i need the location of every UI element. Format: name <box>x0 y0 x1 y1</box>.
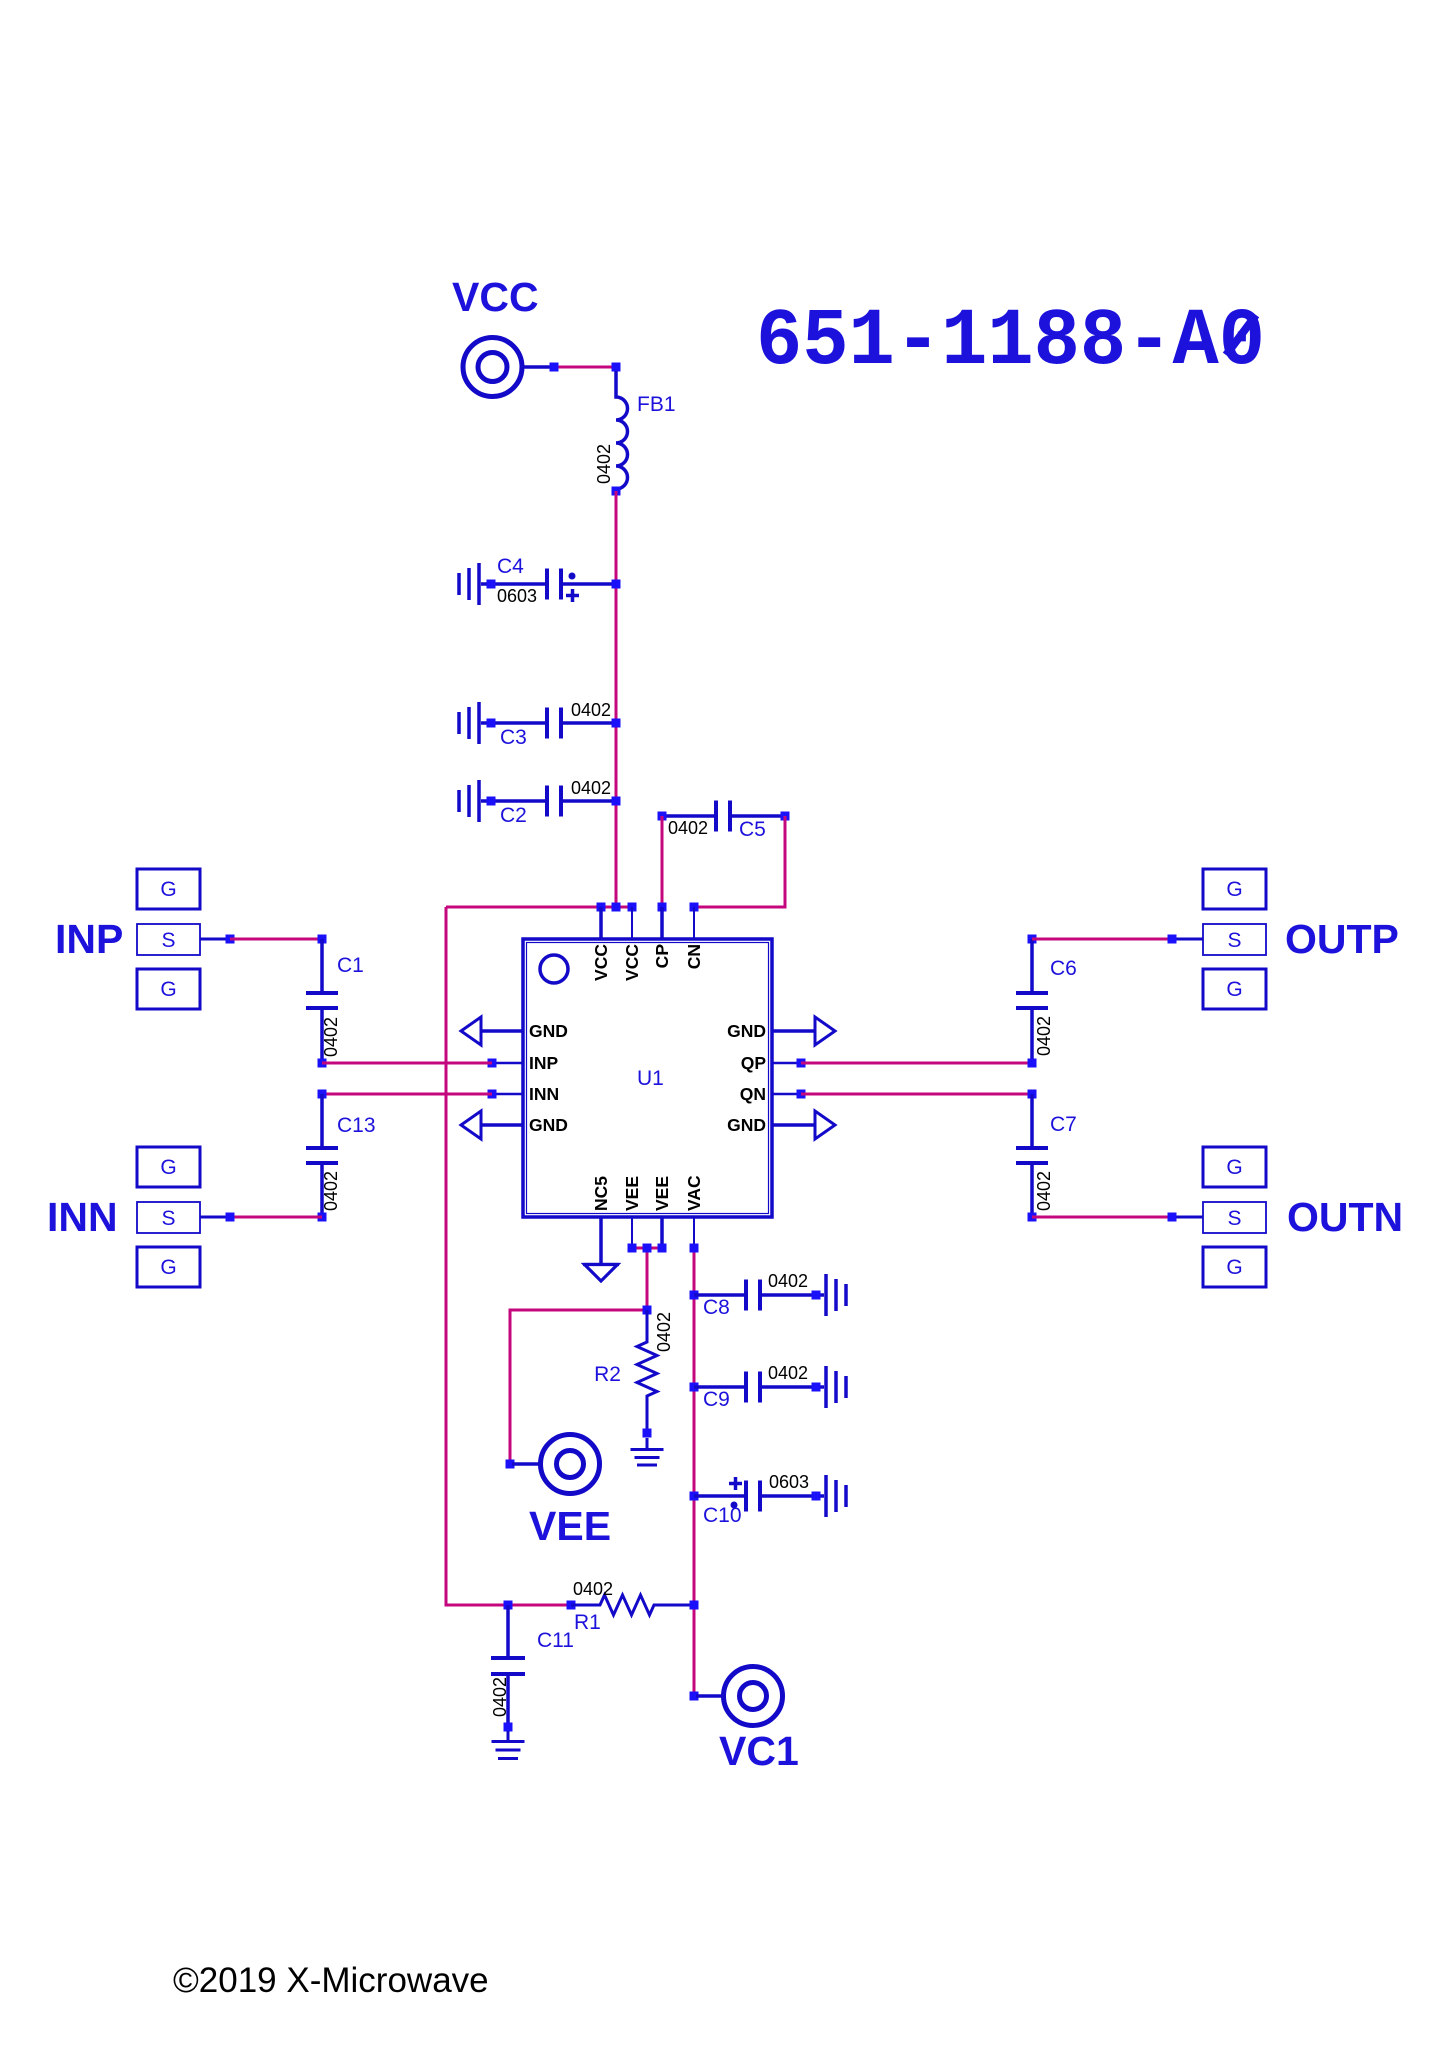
svg-text:C11: C11 <box>537 1629 574 1652</box>
svg-text:G: G <box>1226 978 1242 1001</box>
svg-text:C10: C10 <box>703 1504 742 1527</box>
svg-text:0402: 0402 <box>1034 1171 1054 1211</box>
svg-text:GND: GND <box>529 1021 568 1041</box>
capacitor C4 <box>459 555 621 606</box>
wire INP S to C1 <box>230 938 322 941</box>
capacitor C1 <box>306 935 364 1068</box>
svg-text:0402: 0402 <box>573 1579 613 1599</box>
svg-text:CP: CP <box>652 944 672 969</box>
capacitor C5 <box>658 801 790 842</box>
svg-text:VC1: VC1 <box>719 1728 799 1774</box>
wire C7 to OUTN S <box>1032 1216 1172 1219</box>
wire VEE pins junction <box>628 1244 667 1311</box>
svg-text:S: S <box>1227 929 1241 952</box>
svg-text:C7: C7 <box>1050 1113 1077 1136</box>
pin GND (left bottom) <box>461 1111 568 1139</box>
svg-text:VEE: VEE <box>529 1503 611 1549</box>
pin VEE (bottom 1) <box>622 1176 642 1248</box>
ground at C8 <box>826 1274 846 1316</box>
svg-text:GND: GND <box>529 1115 568 1135</box>
resistor R2 <box>594 1306 674 1438</box>
svg-text:C6: C6 <box>1050 957 1077 980</box>
svg-text:INP: INP <box>529 1053 559 1073</box>
svg-text:S: S <box>161 929 175 952</box>
svg-text:CN: CN <box>684 944 704 969</box>
wire C13 to pin INN <box>322 1093 492 1096</box>
svg-text:C1: C1 <box>337 954 364 977</box>
svg-text:C4: C4 <box>497 555 524 578</box>
svg-text:OUTN: OUTN <box>1287 1194 1403 1240</box>
svg-text:VCC: VCC <box>622 944 642 981</box>
wire C13 to INN S <box>230 1216 322 1219</box>
wire left rail to R1 <box>446 907 571 1605</box>
pin VEE (bottom 2) <box>652 1176 672 1248</box>
net label VEE <box>529 1503 611 1549</box>
wire pin QN to C7 <box>801 1093 1032 1096</box>
svg-text:0402: 0402 <box>768 1363 808 1383</box>
svg-text:GND: GND <box>727 1115 766 1135</box>
wire C6 to OUTP S <box>1032 938 1172 941</box>
svg-text:R2: R2 <box>594 1363 621 1386</box>
svg-text:0402: 0402 <box>668 818 708 838</box>
pin NC5 <box>591 1176 611 1263</box>
capacitor C3 <box>459 700 621 749</box>
svg-text:0402: 0402 <box>1034 1016 1054 1056</box>
port OUTN pads G S G <box>1168 1147 1267 1287</box>
resistor R1 <box>567 1579 699 1634</box>
svg-text:QN: QN <box>740 1084 766 1104</box>
svg-text:G: G <box>160 878 176 901</box>
svg-text:U1: U1 <box>637 1067 664 1090</box>
wire C5 left to pin CP <box>661 816 664 907</box>
svg-text:VEE: VEE <box>622 1176 642 1211</box>
pin GND (left top) <box>461 1017 568 1045</box>
wire VAC rail <box>690 1244 699 1697</box>
port label INP <box>55 916 123 962</box>
port INP pads G S G <box>137 869 235 1009</box>
pin VCC (top 2) <box>622 907 642 981</box>
capacitor C8 <box>690 1271 825 1319</box>
pin VCC (top 1) <box>591 907 611 981</box>
connector VCC <box>463 338 552 397</box>
connector VEE <box>506 1435 600 1494</box>
svg-text:0402: 0402 <box>654 1312 674 1352</box>
chip U1 body <box>523 939 772 1217</box>
ground at R2 <box>631 1438 664 1465</box>
svg-text:C3: C3 <box>500 726 527 749</box>
svg-text:651-1188-A0: 651-1188-A0 <box>756 297 1265 388</box>
svg-text:G: G <box>1226 1256 1242 1279</box>
pin INN <box>488 1084 560 1104</box>
svg-text:0603: 0603 <box>769 1472 809 1492</box>
wire C5 right to pin CN <box>694 816 785 907</box>
svg-text:NC5: NC5 <box>591 1176 611 1211</box>
capacitor C11 <box>490 1601 574 1732</box>
capacitor C7 <box>1016 1090 1077 1222</box>
svg-text:INN: INN <box>529 1084 559 1104</box>
svg-text:VEE: VEE <box>652 1176 672 1211</box>
inductor FB1 <box>594 371 676 496</box>
svg-text:G: G <box>160 1156 176 1179</box>
svg-text:S: S <box>161 1207 175 1230</box>
svg-text:FB1: FB1 <box>637 393 676 416</box>
copyright <box>173 1961 489 2000</box>
port label OUTN <box>1287 1194 1403 1240</box>
svg-text:C5: C5 <box>739 818 766 841</box>
pin VAC <box>684 1175 704 1248</box>
svg-text:S: S <box>1227 1207 1241 1230</box>
capacitor C2 <box>459 778 621 827</box>
svg-text:C8: C8 <box>703 1296 730 1319</box>
pin QP <box>741 1053 806 1073</box>
port label OUTP <box>1285 916 1399 962</box>
wire C1 to pin INP <box>322 1062 492 1065</box>
wire pin QP to C6 <box>801 1062 1032 1065</box>
svg-text:C9: C9 <box>703 1388 730 1411</box>
svg-text:G: G <box>1226 878 1242 901</box>
svg-text:VAC: VAC <box>684 1175 704 1211</box>
svg-text:0402: 0402 <box>571 778 611 798</box>
svg-text:G: G <box>1226 1156 1242 1179</box>
connector VC1 <box>690 1667 783 1726</box>
svg-text:C13: C13 <box>337 1114 376 1137</box>
svg-text:INP: INP <box>55 916 123 962</box>
pin INP <box>488 1053 559 1073</box>
port INN pads G S G <box>137 1147 235 1287</box>
net label VC1 <box>719 1728 799 1774</box>
svg-text:INN: INN <box>47 1194 118 1240</box>
net label VCC <box>452 274 539 320</box>
ground at C9 <box>826 1366 846 1408</box>
svg-text:0402: 0402 <box>768 1271 808 1291</box>
wire R2 to VEE pad <box>510 1310 647 1464</box>
capacitor C6 <box>1016 935 1077 1068</box>
wire top rail to VCC pins <box>446 903 699 912</box>
wire VCC rail <box>615 491 618 907</box>
svg-text:G: G <box>160 978 176 1001</box>
svg-text:VCC: VCC <box>591 944 611 981</box>
svg-text:©2019 X-Microwave: ©2019 X-Microwave <box>173 1961 489 2000</box>
svg-text:OUTP: OUTP <box>1285 916 1399 962</box>
ground at C10 <box>826 1475 846 1517</box>
port label INN <box>47 1194 118 1240</box>
ground at C11 <box>492 1731 525 1759</box>
svg-text:0402: 0402 <box>594 444 614 484</box>
ground at NC5 <box>583 1265 619 1282</box>
svg-text:QP: QP <box>741 1053 767 1073</box>
svg-text:VCC: VCC <box>452 274 539 320</box>
svg-text:0402: 0402 <box>321 1171 341 1211</box>
svg-text:0402: 0402 <box>490 1677 510 1717</box>
pin CP <box>652 907 672 968</box>
svg-text:C2: C2 <box>500 804 527 827</box>
svg-text:0402: 0402 <box>321 1017 341 1057</box>
svg-text:0402: 0402 <box>571 700 611 720</box>
svg-text:G: G <box>160 1256 176 1279</box>
capacitor C9 <box>690 1363 825 1411</box>
svg-text:0603: 0603 <box>497 586 537 606</box>
svg-text:GND: GND <box>727 1021 766 1041</box>
port OUTP pads G S G <box>1168 869 1267 1009</box>
capacitor C10 <box>690 1472 825 1527</box>
capacitor C13 <box>306 1090 376 1222</box>
pin QN <box>740 1084 806 1104</box>
title 651-1188-A0 <box>756 297 1265 388</box>
pin CN <box>684 907 704 969</box>
pin GND (right bottom) <box>727 1111 835 1139</box>
wire VCC pad to FB1 <box>550 363 621 372</box>
pin GND (right top) <box>727 1017 835 1045</box>
svg-text:R1: R1 <box>574 1611 601 1634</box>
